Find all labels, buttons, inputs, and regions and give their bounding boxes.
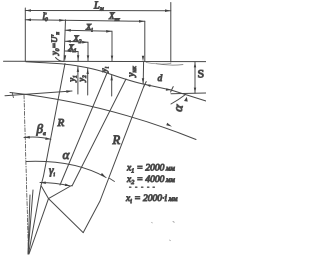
svg-text:R: R	[112, 133, 121, 147]
line A arrow right	[66, 90, 72, 93]
S arrow up	[194, 62, 196, 68]
gamma arc	[40, 183, 71, 187]
ordinate y1 up arrow	[77, 66, 79, 72]
center dash-dot line	[24, 95, 29, 254]
arrow xi right	[106, 30, 112, 33]
ordinate yi up arrow	[111, 75, 113, 81]
arrow Xnk right	[139, 20, 145, 23]
arrow down baseline x=112	[111, 56, 113, 62]
drop line x2 at x=88	[87, 42, 89, 61]
ordinate ynk arrow down at curve x=143	[142, 78, 144, 84]
right extension vertical line Lm	[170, 3, 172, 63]
svg-text:R: R	[57, 117, 65, 129]
ordinate y0 leader hook	[56, 58, 65, 62]
faint double arc under baseline right	[156, 64, 183, 66]
svg-text:l′0: l′0	[43, 12, 48, 23]
svg-text:x2 = 4000мм: x2 = 4000мм	[126, 175, 175, 186]
left extension vertical line	[24, 8, 26, 61]
ordinate ynk segment baseline to curve	[142, 61, 144, 84]
line A left tick	[12, 93, 13, 98]
svg-text:Xi: Xi	[85, 21, 93, 33]
main turnout curve	[26, 62, 143, 84]
svg-text:x1 = 2000мм: x1 = 2000мм	[126, 163, 175, 174]
d arrow right	[166, 88, 172, 90]
svg-text:xi = 2000·iмм: xi = 2000·iмм	[125, 194, 178, 205]
svg-text:d: d	[158, 74, 163, 84]
alpha lower arc dashes continuation	[109, 178, 115, 182]
zigzag break z1	[41, 176, 44, 186]
arrow x1 right	[72, 50, 78, 53]
gamma arrow left	[40, 182, 46, 185]
arrow Lm left	[25, 9, 31, 12]
arrow down baseline x=78.1	[77, 55, 79, 61]
S dimension vertical	[194, 62, 196, 93]
svg-text:α: α	[170, 102, 186, 112]
dimension line x1	[65, 50, 78, 53]
d arrow left	[145, 84, 151, 87]
ellipsis dots	[130, 186, 155, 188]
dimension line l'0 + Xnk chain	[25, 20, 145, 22]
ordinate y2 line below curve	[87, 68, 89, 95]
scan speckle 3	[151, 221, 154, 224]
radius line P upper segment	[72, 79, 126, 186]
arrow down at baseline x=65	[64, 55, 66, 61]
lower fan line f3	[28, 190, 33, 254]
lower parallel track line	[171, 92, 206, 95]
beta arc	[24, 137, 51, 139]
d segment tick left	[144, 82, 147, 87]
svg-text:yнк: yнк	[127, 65, 138, 77]
line A with arrows	[5, 91, 72, 96]
zigzag break z3	[49, 186, 72, 199]
scan speckle 2	[170, 239, 171, 242]
lower fan line f2	[28, 195, 30, 254]
svg-text:X2: X2	[73, 33, 82, 45]
gamma arrow right	[65, 184, 71, 187]
alpha arc at frog	[171, 95, 186, 105]
radius line Q upper segment	[60, 73, 107, 185]
svg-text:Lм: Lм	[93, 1, 104, 13]
arrow x2 left	[65, 40, 71, 43]
arc B arrowhead mid	[166, 123, 172, 127]
arrow down baseline x=143	[142, 56, 144, 62]
zigzag break z5	[83, 201, 100, 233]
arrow x2 right	[82, 41, 88, 44]
arrow Lm right	[165, 9, 171, 12]
beta arrow right	[45, 137, 51, 140]
radius line E upper segment to curve end	[100, 85, 145, 202]
arrow l'0 left	[25, 19, 31, 22]
lower fan line f5	[29, 199, 49, 254]
branch straight line after frog	[171, 90, 206, 101]
dimension line xi	[65, 30, 112, 31]
zigzag break z2	[41, 186, 49, 199]
dimension line x2	[65, 40, 88, 43]
arrow xi left	[65, 29, 71, 32]
alpha arc arrowhead at frog	[184, 97, 188, 102]
drop line Xnk at x=144.8	[144, 21, 146, 61]
svg-text:X1: X1	[68, 42, 77, 54]
drop line xi at x=112	[111, 31, 113, 61]
svg-text:y0=U′н: y0=U′н	[49, 32, 61, 56]
S arrow down	[194, 88, 196, 94]
svg-text:γi: γi	[49, 165, 56, 178]
dimension line Lm	[25, 10, 171, 12]
svg-text:α: α	[63, 147, 71, 162]
arrow down baseline x=88	[87, 55, 89, 61]
straight insert d	[143, 84, 171, 90]
scan speckle 1	[173, 221, 174, 224]
ordinate y1 line below curve	[77, 66, 79, 94]
radius line 1 upper segment to NK	[44, 64, 66, 177]
beta arrow left	[24, 136, 30, 139]
svg-text:S: S	[198, 66, 205, 80]
svg-text:yi: yi	[99, 66, 111, 73]
alpha lower arc	[26, 161, 106, 177]
alpha lower arc arrowhead	[101, 173, 106, 178]
big sweeping arc B across middle	[10, 93, 196, 140]
extension vertical at curve origin x=65	[64, 20, 66, 61]
faint arc under baseline right 2	[146, 63, 171, 64]
lower fan line f4	[29, 186, 42, 255]
svg-text:βа: βа	[36, 121, 46, 137]
drop line x1 at x=78.1	[77, 52, 79, 61]
ordinate yi line below curve	[111, 75, 113, 96]
d segment tick right	[171, 87, 174, 92]
tangent baseline across page	[4, 60, 207, 62]
ordinate y2 up arrow	[87, 68, 89, 74]
arrow x1 left	[65, 50, 71, 53]
arrow l'0 right at x=65	[59, 19, 65, 22]
zigzag break z4	[49, 199, 84, 233]
